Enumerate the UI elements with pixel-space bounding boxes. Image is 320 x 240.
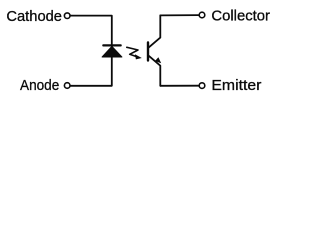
- phototransistor emitter lead: [149, 56, 160, 86]
- light arrow head: [135, 54, 142, 59]
- phototransistor collector lead: [149, 15, 160, 47]
- light arrow (LED to transistor): [127, 47, 138, 56]
- phototransistor base bar: [147, 43, 149, 61]
- LED triangle (anode to cathode): [102, 46, 122, 57]
- svg-text:Collector: Collector: [211, 8, 270, 25]
- svg-text:Anode: Anode: [20, 77, 59, 94]
- terminal Cathode: [64, 13, 70, 19]
- svg-text:Cathode: Cathode: [6, 8, 62, 25]
- wire LED bottom to anode: [71, 57, 112, 86]
- svg-text:Emitter: Emitter: [211, 77, 261, 94]
- wire collector terminal: [160, 14, 198, 16]
- terminal Emitter: [199, 83, 205, 89]
- emitter arrowhead: [155, 57, 161, 63]
- wire cathode to LED top: [71, 16, 112, 45]
- wire emitter terminal: [160, 85, 198, 87]
- LED cathode bar: [103, 44, 120, 46]
- terminal Collector: [199, 12, 205, 18]
- terminal Anode: [64, 83, 70, 89]
